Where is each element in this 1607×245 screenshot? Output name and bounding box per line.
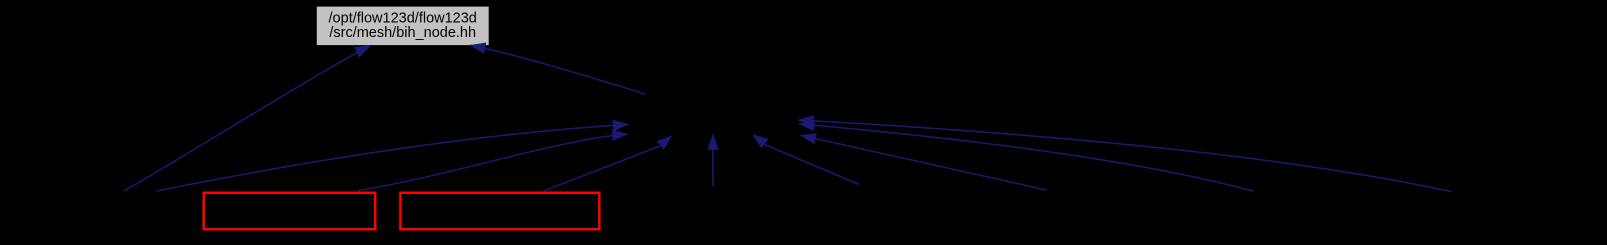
edge E7: bottom node to middle node bottom-right bbox=[752, 134, 859, 184]
edge E1: bottom-left node to main node bbox=[124, 46, 371, 192]
svg-text:/opt/flow123d/flow123d: /opt/flow123d/flow123d bbox=[329, 10, 477, 26]
edge E5: red2 node to middle node bottom bbox=[543, 135, 672, 191]
node red2 (truncated include node, right) bbox=[400, 193, 599, 230]
node red1 (truncated include node, left) bbox=[204, 193, 376, 230]
edge E8: far-right bottom node to middle node right side bbox=[798, 120, 1451, 192]
edge E10: bottom node to middle node right-bottom corner bbox=[801, 135, 1048, 190]
svg-text:/src/mesh/bih_node.hh: /src/mesh/bih_node.hh bbox=[329, 25, 476, 41]
node main: /opt/flow123d/flow123d/src/mesh/bih_node.hh bbox=[317, 7, 489, 46]
edge E9: right bottom node to middle node right side bbox=[799, 124, 1253, 191]
edge E3: bottom-left node to middle node left side bbox=[156, 125, 628, 192]
edge E6: bottom node (vertical) to middle node bottom bbox=[712, 134, 714, 186]
edge E4: red1 node to middle node left side bbox=[358, 134, 628, 190]
edge E2: middle node (bih_tree.hh) to main node bbox=[470, 45, 645, 94]
